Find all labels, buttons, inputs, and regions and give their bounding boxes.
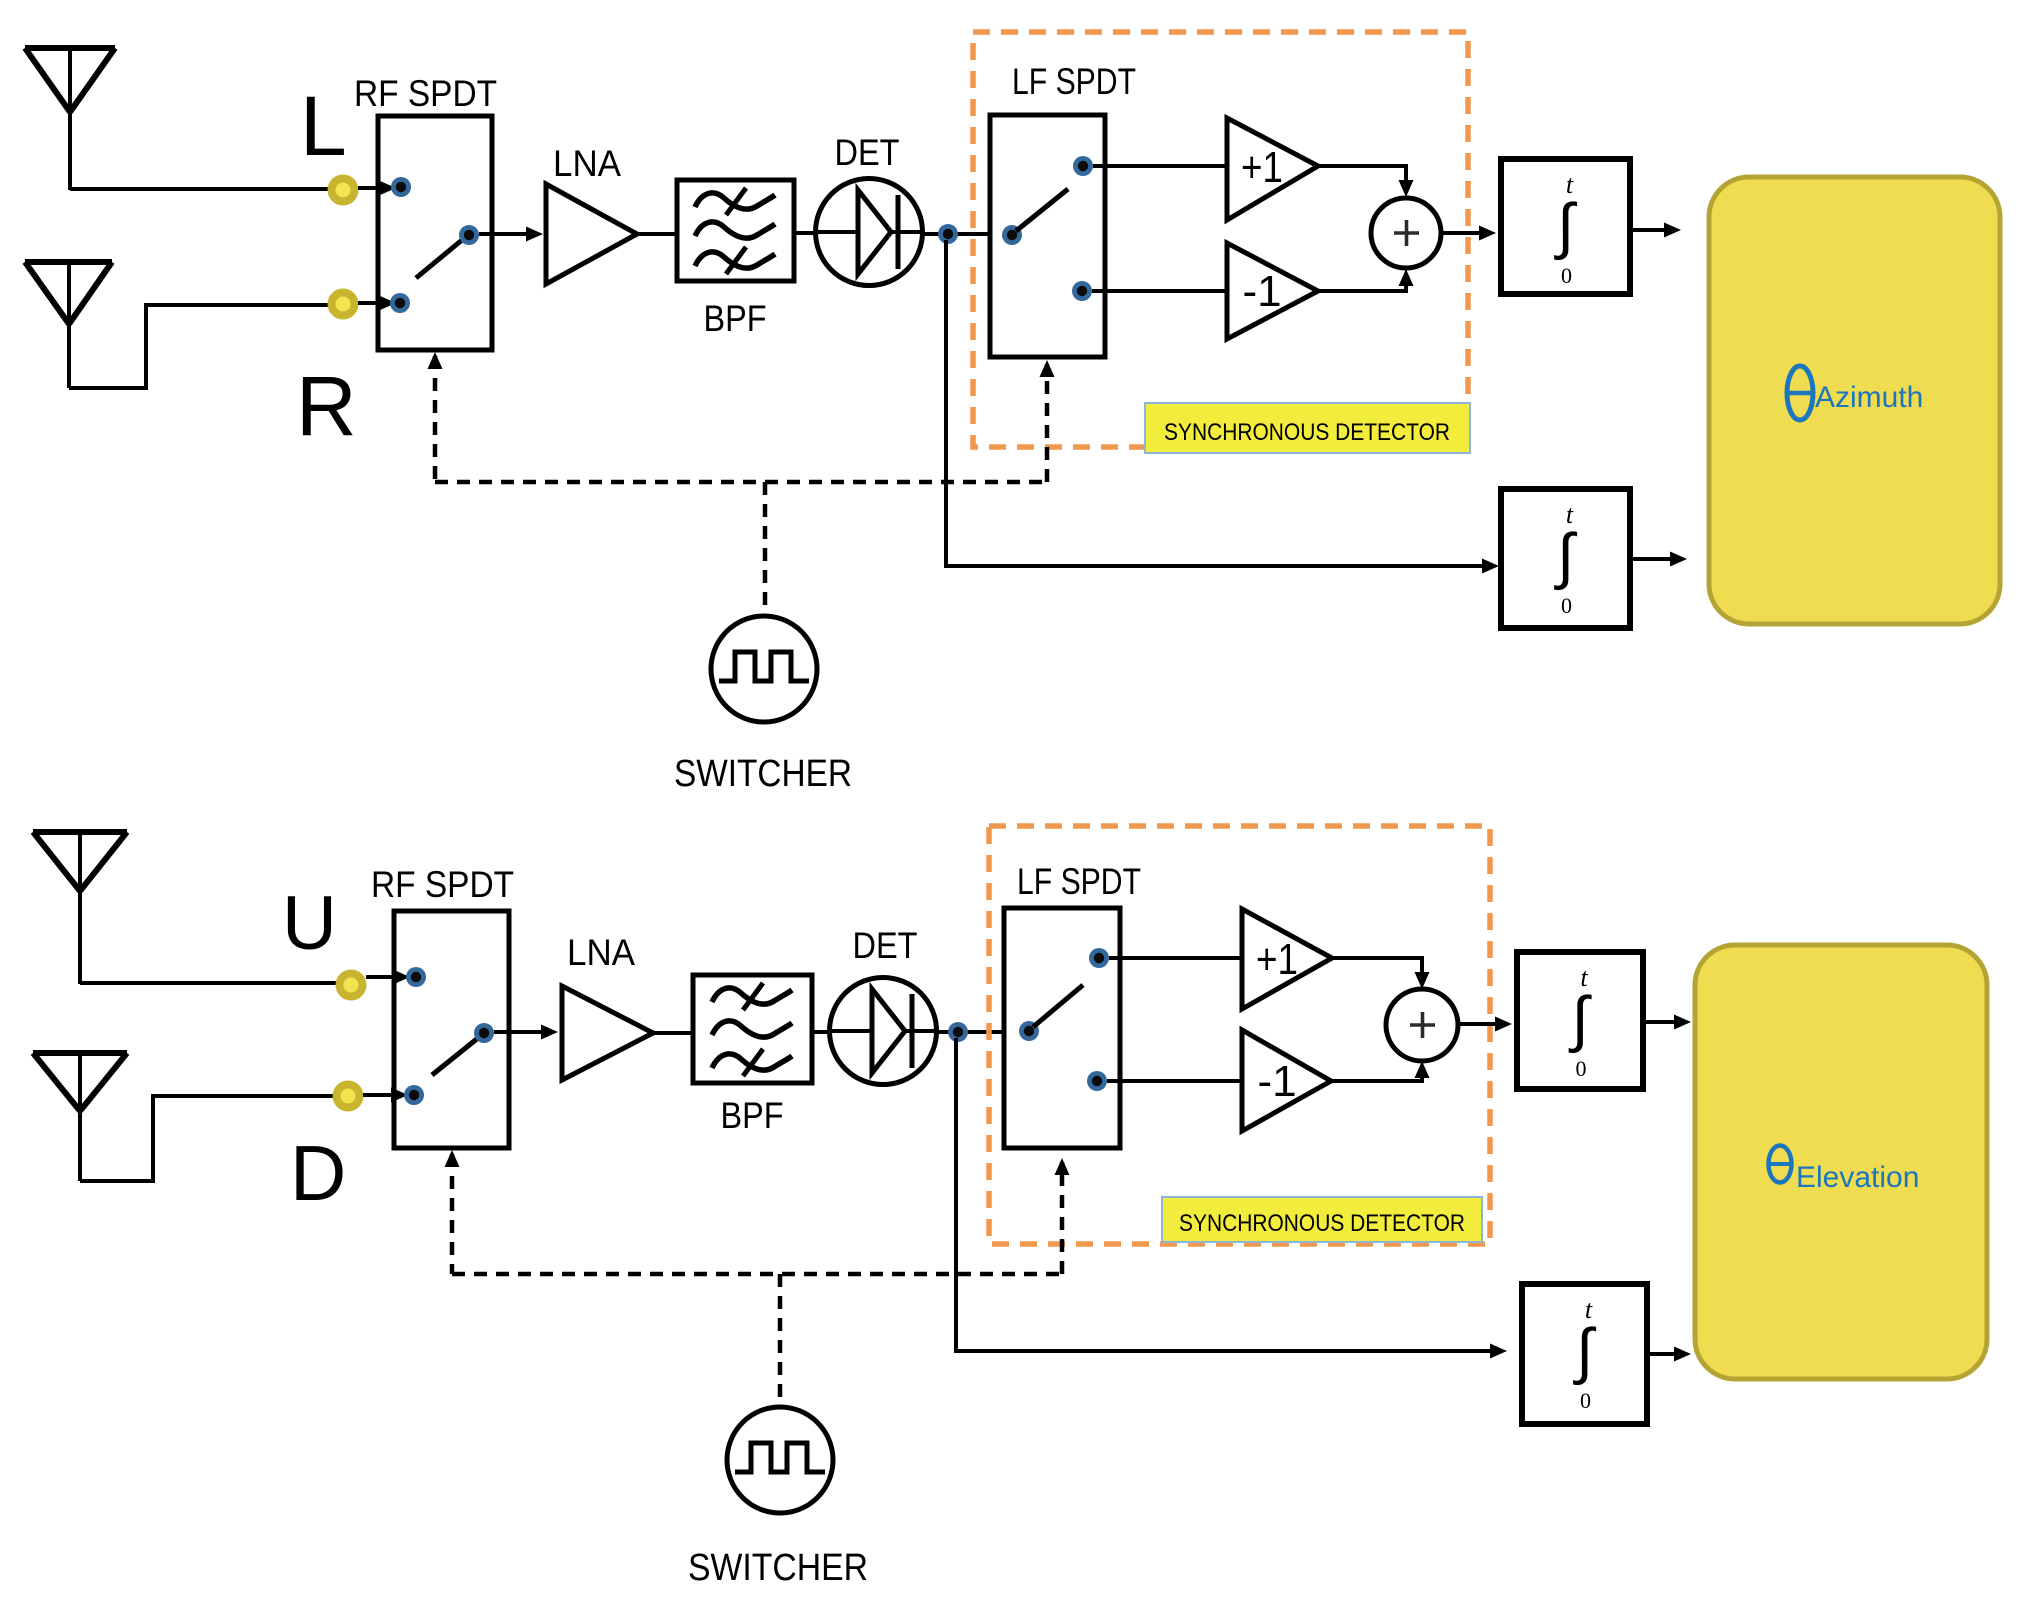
integrator 4 (bottom sum channel) <box>1522 1284 1647 1424</box>
svg-text:BPF: BPF <box>704 298 767 339</box>
svg-text:D: D <box>290 1129 346 1217</box>
DET detector diode (top) <box>816 179 923 286</box>
RF SPDT throw dot L <box>391 177 411 197</box>
-1 gain triangle (bottom) <box>1242 1030 1331 1131</box>
wire integrator 2 to azimuth block <box>1630 557 1678 561</box>
dashed control line from switcher to RF SPDT (bottom) <box>450 1154 455 1274</box>
connector L (gold) <box>328 175 359 206</box>
wire node down to integrator 2 (top sum channel) <box>946 240 1490 566</box>
svg-text:LNA: LNA <box>553 143 621 184</box>
wire connector-D into RF SPDT with arrow <box>363 1093 395 1097</box>
svg-text:-1: -1 <box>1242 267 1281 316</box>
antenna R (left, second) <box>25 259 112 265</box>
wire +1 to summer (top) <box>1318 166 1406 186</box>
-1 gain triangle (top) <box>1227 243 1318 339</box>
dashed control line up to LF SPDT (top) <box>1045 364 1050 482</box>
svg-text:U: U <box>282 881 337 966</box>
wire BPF to DET <box>794 231 817 235</box>
LF SPDT throw dot down (bottom) <box>1087 1071 1107 1091</box>
wire summer to integrator 3 (bottom) <box>1458 1022 1503 1026</box>
DET detector diode (bottom) <box>830 978 937 1085</box>
RF SPDT lever (bottom) <box>432 1038 478 1075</box>
wire antenna-U to connector <box>80 981 338 985</box>
wire antenna-D to connector <box>80 1096 335 1181</box>
SWITCHER square-wave source (bottom) <box>727 1407 833 1513</box>
LF SPDT throw dot up (bottom) <box>1089 948 1109 968</box>
dashed control bus horizontal (bottom) <box>452 1272 1062 1277</box>
svg-text:0: 0 <box>1561 263 1572 288</box>
yellow label SYNCHRONOUS DETECTOR (top) <box>1145 403 1470 453</box>
dashed control line from switcher to RF SPDT (top) <box>433 356 438 482</box>
wire LNA to BPF <box>637 232 678 236</box>
RF SPDT common dot (bottom) <box>474 1023 494 1043</box>
wire throw-up to +1 amp (bottom) <box>1109 956 1242 960</box>
yellow label SYNCHRONOUS DETECTOR (bottom) <box>1162 1197 1482 1242</box>
connector U (gold) <box>336 970 367 1001</box>
dashed control bus horizontal (top) <box>435 480 1047 485</box>
wire antenna-L to connector <box>70 187 330 191</box>
integrator 2 (top sum channel) <box>1501 489 1630 628</box>
svg-text:SWITCHER: SWITCHER <box>674 753 852 795</box>
svg-text:LF SPDT: LF SPDT <box>1012 61 1136 102</box>
wire throw-down to -1 amp (top) <box>1092 289 1227 293</box>
connector D (gold) <box>333 1081 364 1112</box>
wire integrator 3 to elevation block <box>1643 1020 1682 1024</box>
svg-text:R: R <box>296 359 357 453</box>
RF SPDT switch box (top) <box>378 116 492 350</box>
svg-text:RF SPDT: RF SPDT <box>371 864 514 905</box>
SWITCHER square-wave source (top) <box>711 616 817 722</box>
svg-text:0: 0 <box>1580 1388 1591 1413</box>
RF SPDT switch box (bottom) <box>394 911 509 1148</box>
svg-text:SWITCHER: SWITCHER <box>688 1547 868 1589</box>
LF SPDT throw dot down (top) <box>1072 281 1092 301</box>
wire -1 to summer (top) <box>1318 280 1406 291</box>
wire DET to LF SPDT (bottom) <box>936 1030 1029 1034</box>
wire RF SPDT to LNA with arrow (bottom) <box>494 1030 549 1034</box>
node after DET (bottom) <box>948 1022 968 1042</box>
svg-text:SYNCHRONOUS DETECTOR: SYNCHRONOUS DETECTOR <box>1164 419 1450 446</box>
theta symbol (azimuth) <box>1787 366 1813 420</box>
wire +1 to summer (bottom) <box>1332 958 1422 978</box>
svg-text:DET: DET <box>835 132 900 173</box>
svg-text:RF SPDT: RF SPDT <box>354 73 497 114</box>
svg-text:Elevation: Elevation <box>1796 1161 1919 1194</box>
wire antenna-R to connector <box>69 305 330 388</box>
svg-text:LNA: LNA <box>567 932 635 973</box>
RF SPDT throw dot R <box>390 293 410 313</box>
BPF band-pass filter (top) <box>677 180 794 281</box>
wire connector-U into RF SPDT with arrow <box>366 975 397 979</box>
svg-text:0: 0 <box>1576 1056 1587 1081</box>
svg-text:SYNCHRONOUS DETECTOR: SYNCHRONOUS DETECTOR <box>1179 1210 1465 1237</box>
wire LNA to BPF (bottom) <box>653 1031 694 1035</box>
wire DET to LF SPDT <box>922 232 1012 236</box>
LF SPDT switch box (top) <box>990 115 1105 357</box>
antenna U (bottom-left) <box>33 829 127 835</box>
orange dashed synchronous-detector boundary (bottom) <box>989 826 1490 1244</box>
dashed control line up to LF SPDT (bottom) <box>1060 1162 1065 1274</box>
LNA amplifier triangle (top) <box>546 184 637 284</box>
summing junction (bottom) <box>1386 989 1458 1061</box>
svg-text:DET: DET <box>853 925 918 966</box>
svg-text:LF SPDT: LF SPDT <box>1017 861 1141 902</box>
wire node down to integrator 4 (bottom sum channel) <box>956 1038 1498 1351</box>
dashed stem to switcher (top) <box>763 482 768 614</box>
RF SPDT throw dot U <box>406 967 426 987</box>
wire connector-R into RF SPDT with arrow <box>358 301 382 305</box>
svg-text:0: 0 <box>1561 593 1572 618</box>
theta Azimuth output block <box>1709 177 2000 624</box>
orange dashed synchronous-detector boundary (top) <box>973 32 1468 447</box>
summing junction (top) <box>1371 198 1441 268</box>
connector R (gold) <box>328 289 359 320</box>
svg-text:+1: +1 <box>1241 143 1283 192</box>
wire integrator 4 to elevation block <box>1647 1352 1682 1356</box>
svg-text:BPF: BPF <box>721 1095 784 1136</box>
node after DET (top) <box>938 224 958 244</box>
+1 gain triangle (bottom) <box>1242 909 1332 1009</box>
LF SPDT switch box (bottom) <box>1004 908 1120 1148</box>
plus sign in summer (bottom) <box>1410 1023 1435 1027</box>
integrator 3 (bottom difference channel) <box>1517 952 1643 1089</box>
LF SPDT lever (bottom) <box>1033 985 1083 1027</box>
wire throw-down to -1 amp (bottom) <box>1107 1079 1242 1083</box>
wire integrator 1 to azimuth block <box>1630 228 1672 232</box>
plus sign in summer (top) <box>1394 231 1419 235</box>
wire -1 to summer (bottom) <box>1331 1072 1422 1081</box>
antenna L (top-left) <box>25 45 115 51</box>
BPF band-pass filter (bottom) <box>693 975 812 1083</box>
LF SPDT lever (top) <box>1016 189 1068 231</box>
RF SPDT common dot (top) <box>459 225 479 245</box>
wire connector-L into RF SPDT with arrow <box>358 186 382 190</box>
LF SPDT common dot (bottom) <box>1019 1021 1039 1041</box>
wire RF SPDT to LNA with arrow <box>479 232 534 236</box>
theta Elevation output block <box>1695 945 1987 1379</box>
dashed stem to switcher (bottom) <box>778 1274 783 1406</box>
theta symbol (elevation) <box>1769 1146 1792 1183</box>
RF SPDT lever (top) <box>416 240 462 278</box>
LF SPDT throw dot up (top) <box>1073 156 1093 176</box>
LNA amplifier triangle (bottom) <box>562 986 653 1080</box>
svg-text:-1: -1 <box>1257 1057 1296 1106</box>
integrator 1 (top difference channel) <box>1501 159 1630 294</box>
svg-text:L: L <box>300 79 347 173</box>
svg-text:Azimuth: Azimuth <box>1815 381 1923 414</box>
antenna D (bottom, second) <box>33 1050 127 1056</box>
wire BPF to DET (bottom) <box>812 1030 831 1034</box>
wire summer to integrator 1 (top) <box>1441 231 1487 235</box>
svg-text:+1: +1 <box>1256 935 1298 984</box>
wire throw-up to +1 amp (top) <box>1093 164 1227 168</box>
LF SPDT common dot (top) <box>1002 225 1022 245</box>
RF SPDT throw dot D <box>404 1085 424 1105</box>
+1 gain triangle (top) <box>1227 118 1318 220</box>
